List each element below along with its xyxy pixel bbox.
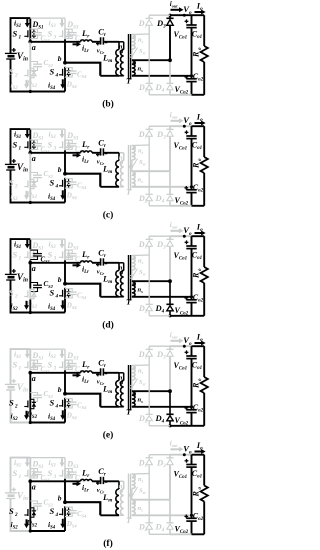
wire output bottom rail Co2-right (f) [192,533,205,535]
body-diode label DS2 (b) [26,79,38,90]
svg-text:D4: D4 [155,413,165,425]
svg-text:Ssr: Ssr [139,488,146,496]
svg-text:ns: ns [138,505,144,513]
wire tank top np stub (d) [119,263,124,271]
svg-text:Co1: Co1 [192,250,202,261]
svg-text:CS4: CS4 [77,182,87,191]
capacitor Cr (e) [96,357,107,386]
body-diode label DS4 (c) [66,192,78,201]
wire S3 source to node b (c) [64,150,66,173]
switch S4 (d) [50,287,71,299]
body-diode label DS2 (d) [26,300,38,311]
wire output bottom rail gray (e) [149,425,170,427]
wire output bottom rail gray (b) [149,94,170,96]
capacitor Co1 (b) [174,15,203,76]
current label iLr (b) [73,42,90,54]
switch S3 (d) [48,249,71,261]
wire top-left rail (b) [11,18,31,53]
wire S2 drain stub (d) [29,263,31,289]
switch S4 (c) [50,177,71,189]
wire output top rail D3-Co1 (c) [170,125,192,127]
svg-text:D4: D4 [155,193,165,205]
body-diode label DS1 (b) [32,20,44,31]
wire output top rail Co1-right (d) [192,235,205,237]
diode D2 (c) [138,145,153,206]
wire tank bottom (d) [100,296,123,298]
wire ns bottom to mid node (e) [132,406,192,408]
wire node b return (d) [65,284,100,297]
wire ns bottom to mid node (f) [132,514,192,516]
switch S3 (f) [48,468,71,480]
wire output bottom rail D4-Co2 (f) [170,533,192,535]
inductor Lr (c) [81,139,93,153]
mid node (e) [190,405,193,408]
wire Lr to Cr (f) [92,480,101,482]
wire output top rail Co1-right (c) [192,125,205,127]
wire Cr to tank top (b) [103,41,119,43]
svg-text:ns: ns [138,66,144,74]
switch S1 (e) [13,359,37,371]
wire bottom rail S2-S4 (c) [30,202,65,204]
wire center tap (d) [132,280,170,282]
svg-text:Vin: Vin [17,383,28,394]
capacitor Co2 (d) [175,293,204,317]
caption (b) [102,99,114,110]
wire output top rail gray (e) [149,345,170,347]
current label iS3 (d) [49,240,65,251]
switch Ssr (d) [130,269,147,282]
diode D2 (e) [138,365,153,426]
wire tank top np stub (c) [119,153,124,161]
transformer core T (c) [126,145,132,197]
svg-text:D1: D1 [138,19,147,30]
diode D2 (b) [138,34,153,95]
current label iout (e) [170,331,184,343]
inductor Lm (c) [102,153,119,187]
capacitor Co1 (c) [174,126,203,187]
svg-text:S: S [9,66,14,76]
svg-text:iLr: iLr [82,375,89,386]
svg-text:iout: iout [170,331,178,340]
wire bottom rail S2-S4 (b) [30,91,65,93]
svg-text:ns: ns [138,397,144,405]
capacitor Co2 (f) [175,511,204,535]
wire S3 source to node b (b) [64,39,66,62]
wire S1 drain stub (e) [29,349,31,359]
svg-text:D1: D1 [138,240,147,251]
svg-text:2: 2 [14,183,18,189]
node Vo (c) [183,115,192,128]
svg-text:iout: iout [170,221,178,230]
svg-text:DS4: DS4 [66,520,78,529]
wire Lr to Cr (d) [92,262,101,264]
svg-text:Ssr: Ssr [139,159,146,167]
wire Cr to tank top (f) [103,480,119,482]
current label iS4 (e) [48,410,65,422]
switch S4 (f) [50,506,71,518]
svg-text:CS4: CS4 [77,510,87,519]
voltage source Vin (f) [5,488,28,503]
wire ns bottom to mid node (d) [132,296,192,298]
wire S4 source stub (d) [64,299,66,313]
node b (f) [58,494,67,505]
wire top-left rail (f) [11,458,31,493]
svg-text:Co1: Co1 [192,360,202,371]
svg-text:3: 3 [53,146,57,152]
svg-text:ns: ns [138,476,144,484]
svg-text:D3: D3 [156,457,166,469]
body-diode label DS3 (e) [66,351,79,362]
wire output bottom rail D4-Co2 (d) [170,315,192,317]
svg-text:Vin: Vin [17,492,28,503]
switch S2 (c) [9,177,36,189]
wire S1 drain stub (f) [29,458,31,468]
wire output top rail D3-Co1 (f) [170,454,192,456]
svg-text:iLr: iLr [82,155,89,166]
svg-text:D3: D3 [156,239,166,251]
node Vo (e) [183,335,192,348]
svg-text:R: R [191,382,200,389]
switch S2 (d) [9,287,36,299]
wire S4 source stub (c) [64,189,66,203]
svg-text:D3: D3 [156,18,166,30]
wire top rail to S3 (e) [30,348,65,350]
svg-text:b: b [58,494,62,503]
svg-text:iS4: iS4 [48,520,56,531]
snubber capacitor CS4 (c) [65,179,87,191]
switch S3 (b) [48,28,71,40]
inductor Lm (e) [102,373,119,407]
diode D3 (d) [156,236,174,281]
svg-text:a: a [32,154,36,163]
wire top rail to S3 (f) [30,457,65,459]
body-diode label DS3 (f) [66,460,79,471]
current label iLr (f) [73,481,90,493]
svg-text:S: S [9,397,14,407]
wire center tap (c) [132,170,170,172]
snubber capacitor CS2 (b) [30,59,53,70]
current label iLr (d) [73,263,90,275]
wire Cr to tank top (e) [103,372,119,374]
wire top-left rail (d) [11,239,31,274]
inductor Lm (f) [102,481,119,515]
svg-text:2: 2 [14,72,18,78]
wire output top rail Co1-right (b) [192,14,205,16]
svg-text:S: S [50,66,55,76]
wire tank top np stub (f) [119,481,124,489]
diode D1 (b) [138,15,153,34]
diode D1 (f) [138,455,153,474]
svg-text:1: 1 [19,256,22,262]
current label iLr (c) [73,153,90,165]
wire S3 source to node b (e) [64,370,66,393]
current label iout (b) [170,0,184,12]
wire node a to Lr (b) [30,41,80,43]
svg-text:DS4: DS4 [66,302,78,311]
wire output bottom rail D4-Co2 (b) [170,94,192,96]
svg-text:Lm: Lm [102,383,112,395]
wire output bottom rail Co2-right (e) [192,425,205,427]
snubber capacitor CS3 (f) [65,469,85,483]
switch S3 (c) [48,139,71,151]
transformer primary np (d) [119,264,125,297]
switch S1 (d) [13,249,37,261]
wire tank bottom (f) [100,514,123,516]
svg-text:iLr: iLr [82,483,89,494]
wire S2 drain stub (c) [29,153,31,179]
svg-text:iS2: iS2 [11,302,19,313]
wire node b return (c) [65,174,100,187]
wire S3 drain stub (f) [64,458,66,468]
svg-text:iS4: iS4 [48,192,56,203]
secondary winding ns lower (c) [132,172,143,187]
svg-text:Lm: Lm [102,273,112,285]
svg-text:iS2: iS2 [11,81,19,92]
svg-text:Cr: Cr [98,247,107,259]
secondary winding ns lower (f) [132,500,143,515]
diode D1 (e) [138,346,153,365]
transformer primary np (f) [119,483,125,516]
svg-text:Co1: Co1 [192,29,202,40]
wire Lr to Cr (b) [92,41,101,43]
current label Io (b) [195,0,206,14]
current label Io (d) [195,221,206,235]
wire output top rail D3-Co1 (d) [170,235,192,237]
snubber capacitor CS3 (b) [65,29,85,43]
node a (b) [28,40,35,52]
node a (f) [28,479,35,491]
svg-text:D1: D1 [138,130,147,141]
svg-text:iLr: iLr [82,44,89,55]
node a (e) [28,371,35,383]
svg-text:D2: D2 [138,83,148,94]
svg-text:1: 1 [19,474,22,480]
svg-text:Lm: Lm [102,492,112,504]
svg-text:S: S [50,397,55,407]
svg-text:o: o [198,268,203,271]
svg-text:D2: D2 [138,194,148,205]
svg-text:iS4: iS4 [48,81,56,92]
transformer core T (f) [126,474,132,526]
snubber capacitor CS2 (f) [30,499,53,510]
voltage source Vin (c) [5,159,28,174]
current label iS3 (b) [49,19,65,30]
snubber capacitor CS1 (d) [30,250,50,264]
svg-text:Lr: Lr [81,249,90,261]
wire output bottom rail D4-Co2 (e) [170,425,192,427]
svg-text:D3: D3 [156,129,166,141]
body-diode label DS1 (d) [32,241,44,252]
switch S2 (e) [9,397,36,409]
mid node (d) [190,295,193,298]
wire bottom-left rail (b) [11,59,31,92]
capacitor Co2 (b) [175,72,204,96]
secondary winding ns upper (d) [132,256,144,271]
diode D3 (c) [156,126,174,171]
svg-text:S: S [50,177,55,187]
transformer core T (b) [126,34,132,86]
svg-text:b: b [58,385,62,394]
svg-text:(f): (f) [103,538,113,549]
inductor Lr (f) [81,468,93,482]
wire S3 drain stub (b) [64,18,66,28]
body-diode label DS4 (b) [66,81,78,90]
svg-text:S: S [50,506,55,516]
caption (d) [102,320,114,331]
svg-text:o: o [198,487,203,490]
current label iS4 (d) [48,300,65,312]
node b (d) [58,275,67,286]
snubber capacitor CS1 (b) [30,29,50,43]
diode D1 (d) [138,236,153,255]
wire bottom rail S2-S4 (d) [30,312,65,314]
svg-text:3: 3 [53,256,57,262]
svg-text:DS4: DS4 [66,412,78,421]
svg-text:Lm: Lm [102,52,112,64]
current label iS4 (b) [48,79,65,91]
wire S1 source stub (e) [29,370,31,373]
svg-text:1: 1 [19,146,22,152]
svg-text:Vin: Vin [17,52,28,63]
svg-text:D1: D1 [138,350,147,361]
svg-text:iS2: iS2 [11,520,19,531]
svg-text:Vin: Vin [17,163,28,174]
switch Ssr (c) [130,159,147,172]
svg-text:R: R [191,162,200,169]
svg-text:D2: D2 [138,414,148,425]
node b (c) [58,165,67,176]
wire tank bottom (c) [100,186,123,188]
diode D4 (b) [155,58,174,95]
svg-text:Cr: Cr [98,466,107,478]
body-diode label DS4 (d) [66,302,78,311]
wire S1 source stub (b) [29,39,31,42]
snubber capacitor CS4 (b) [65,68,87,80]
svg-text:Ssr: Ssr [139,48,146,56]
wire ns upper to D1 (d) [132,254,149,257]
diode D3 (e) [156,346,174,391]
svg-text:D2: D2 [138,304,148,315]
wire center tap (e) [132,390,170,392]
svg-text:CS4: CS4 [77,292,87,301]
wire top-left rail (c) [11,129,31,164]
svg-text:T: T [126,407,132,417]
resistor Ro (f) [191,455,208,535]
svg-text:S: S [9,177,14,187]
caption (c) [103,210,114,221]
resistor Ro (d) [191,236,208,316]
current label iS4 (c) [48,190,65,202]
capacitor Cr (f) [96,466,107,495]
wire S3 source to node b (d) [64,260,66,283]
svg-text:1: 1 [19,35,22,41]
wire ns upper to D1 (c) [132,144,149,147]
diode D4 (c) [155,171,174,206]
svg-text:4: 4 [55,293,59,299]
wire bottom-left rail (d) [11,280,31,313]
resistor Ro (c) [191,126,208,206]
wire S1 drain stub (d) [29,239,31,249]
current label Io (c) [195,111,206,125]
wire bottom-left rail (c) [11,170,31,203]
snubber capacitor CS3 (e) [65,360,85,374]
capacitor Co1 (f) [174,455,203,516]
svg-text:Cr: Cr [98,26,107,38]
wire output top rail Co1-right (f) [192,454,205,456]
current label iout (c) [170,111,184,123]
inductor Lm (d) [102,263,119,297]
wire ns bottom to mid node (b) [132,75,192,77]
svg-text:S: S [9,506,14,516]
svg-text:Lr: Lr [81,28,90,40]
current label iout (f) [170,440,184,452]
current label iS2 (b) [11,80,30,91]
svg-text:b: b [58,165,62,174]
svg-text:CS4: CS4 [77,402,87,411]
wire S2 source stub (f) [29,518,32,533]
wire tank top np stub (b) [119,42,124,50]
wire top rail to S3 (b) [30,17,65,19]
body-diode label DS2 (c) [26,190,38,201]
wire node b return (b) [65,63,100,76]
capacitor Cr (c) [96,137,107,166]
svg-text:iout: iout [170,111,178,120]
wire node a to Lr (e) [30,372,80,374]
wire S4 source stub (e) [64,409,66,423]
body-diode label DS4 (f) [66,520,78,529]
svg-text:(b): (b) [102,99,114,110]
node b (b) [58,54,67,65]
snubber capacitor CS4 (e) [65,399,87,411]
current label Io (f) [195,440,206,454]
switch S4 (b) [50,66,71,78]
capacitor Co1 (e) [174,346,203,407]
transformer primary np (c) [119,154,125,187]
svg-text:Lr: Lr [81,139,90,151]
svg-text:o: o [198,158,203,161]
node b (e) [58,385,67,396]
transformer core T (e) [126,365,132,417]
wire S1 drain stub (b) [29,18,31,28]
wire node b return (f) [65,502,100,515]
diode D4 (d) [155,279,174,317]
wire S3 drain stub (e) [64,349,66,359]
svg-text:VCo1: VCo1 [174,469,188,480]
switch S4 (e) [50,397,71,409]
svg-text:S: S [13,360,18,370]
switch S1 (b) [13,28,37,40]
svg-text:ns: ns [138,258,144,266]
svg-text:Cr: Cr [98,137,107,149]
body-diode label DS1 (e) [32,351,44,362]
current label iS3 (c) [49,130,65,141]
body-diode label DS3 (c) [66,131,79,142]
inductor Lm (b) [102,42,119,76]
capacitor Cr (d) [96,247,107,276]
transformer primary np (e) [119,374,125,407]
switch S2 (b) [9,66,36,78]
body-diode label DS1 (c) [32,131,44,142]
wire bottom rail S2-S4 (e) [30,422,65,424]
body-diode label DS2 (e) [26,410,38,421]
wire S1 source stub (c) [29,150,31,153]
wire ns bottom to mid node (c) [132,186,192,188]
svg-text:iS4: iS4 [48,302,56,313]
body-diode label DS4 (e) [66,412,78,421]
switch S3 (e) [48,359,71,371]
transformer core T (d) [126,255,132,307]
wire ns upper to D1 (f) [132,473,149,476]
